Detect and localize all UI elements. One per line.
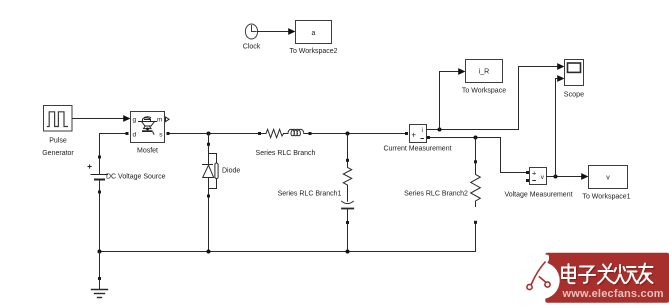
source DC Voltage Source xyxy=(88,134,166,194)
svg-text:Series RLC Branch: Series RLC Branch xyxy=(256,150,316,157)
main top rail wire xyxy=(167,132,405,135)
svg-text:i: i xyxy=(421,127,422,134)
svg-text:Current Measurement: Current Measurement xyxy=(383,146,451,153)
signal wire v output xyxy=(547,79,589,180)
svg-text:m: m xyxy=(157,116,163,123)
svg-text:Clock: Clock xyxy=(243,44,261,51)
watermark CJK text art xyxy=(562,264,654,285)
svg-text:To Workspace: To Workspace xyxy=(462,88,506,95)
watermark logo disc xyxy=(522,262,559,299)
svg-text:Series RLC Branch2: Series RLC Branch2 xyxy=(404,191,468,198)
wire branch1 bottom xyxy=(347,224,349,252)
svg-text:Generator: Generator xyxy=(42,150,74,157)
wire DC source to bottom rail xyxy=(99,194,101,252)
svg-text:To Workspace1: To Workspace1 xyxy=(582,194,630,201)
watermark red box xyxy=(545,253,669,303)
svg-text:a: a xyxy=(312,30,316,37)
svg-text:v: v xyxy=(606,174,610,181)
svg-text:+: + xyxy=(532,169,536,178)
svg-text:To Workspace2: To Workspace2 xyxy=(289,48,337,55)
node junction branch1 top xyxy=(346,132,350,136)
watermark elecfans xyxy=(522,253,669,303)
svg-text:Voltage Measurement: Voltage Measurement xyxy=(504,192,572,199)
svg-text:Mosfet: Mosfet xyxy=(137,148,158,155)
block Scope xyxy=(557,60,584,99)
node junction diode top xyxy=(207,132,211,136)
svg-text:+: + xyxy=(411,130,416,139)
svg-text:g: g xyxy=(133,116,137,123)
wire CM minus rail to Voltage Measurement plus xyxy=(427,136,530,174)
block To Workspace2 xyxy=(289,21,337,56)
wire Mosfet d to DC source top xyxy=(100,132,129,156)
wire branch2 top xyxy=(475,138,477,161)
block Voltage Measurement xyxy=(504,168,572,199)
ports of Series RLC Branch xyxy=(258,132,261,135)
block To Workspace (i_R) xyxy=(462,60,506,95)
wire branch2 bottom xyxy=(475,224,477,252)
svg-text:Series RLC Branch1: Series RLC Branch1 xyxy=(278,191,342,198)
wire branch1 top xyxy=(347,134,349,160)
svg-text:www.elecfans.com: www.elecfans.com xyxy=(562,288,664,300)
wire diode bottom xyxy=(208,198,210,252)
svg-text:d: d xyxy=(133,131,137,138)
svg-text:i_R: i_R xyxy=(479,69,490,76)
svg-text:Scope: Scope xyxy=(564,90,584,99)
node junction branch2 top xyxy=(474,136,478,140)
mosfet icon xyxy=(139,117,157,134)
svg-text:DC Voltage Source: DC Voltage Source xyxy=(106,174,166,181)
svg-text:Pulse: Pulse xyxy=(49,138,67,145)
m output port marker xyxy=(166,117,170,122)
transistor block Mosfet xyxy=(131,112,170,155)
signal wire i output xyxy=(427,63,565,131)
diode Diode xyxy=(203,146,219,195)
ground xyxy=(92,252,108,298)
wire Pulse Generator to Mosfet g xyxy=(73,115,131,122)
block Pulse Generator xyxy=(42,106,74,158)
clock Clock xyxy=(243,24,261,51)
resistor of Series RLC Branch1 xyxy=(343,162,351,186)
block To Workspace1 xyxy=(582,166,630,201)
resistor of Series RLC Branch2 xyxy=(471,163,481,206)
wire diode top xyxy=(208,134,210,144)
bottom rail wire xyxy=(98,250,476,254)
capacitor of Series RLC Branch1 xyxy=(342,186,354,221)
wire Clock to To Workspace2 xyxy=(258,28,296,35)
inductor of Series RLC Branch xyxy=(288,129,304,135)
resistor of Series RLC Branch xyxy=(266,129,284,137)
svg-text:Diode: Diode xyxy=(222,168,240,175)
block Current Measurement xyxy=(383,125,451,153)
